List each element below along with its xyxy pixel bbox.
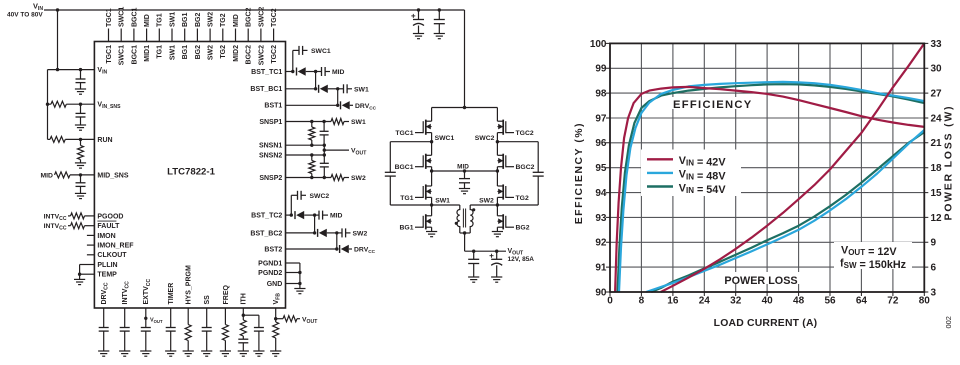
ground PLLIN/TEMP [74, 278, 85, 280]
curve power loss VIN=54V [651, 132, 924, 292]
resistor RUN divider bottom [80, 139, 82, 145]
inductor phasing dot L1A [455, 222, 458, 225]
wire sense mid tie [323, 145, 325, 155]
pin SW2 top stub [209, 29, 211, 42]
capacitor boost SWC1 [298, 46, 300, 55]
capacitor to ground [141, 327, 151, 329]
wire BST_TC2 to BST_BC2 tie [314, 215, 316, 233]
wire bottom pin [187, 308, 189, 325]
capacitor input bulk (polarized) [417, 8, 420, 11]
wire BST1 pin [286, 104, 338, 106]
capacitor CVIN bypass [80, 70, 82, 79]
svg-text:SW1: SW1 [169, 45, 176, 60]
legend line VIN=54V [647, 185, 673, 187]
svg-text:002: 002 [944, 316, 953, 328]
wire SWC2 boost branch [290, 195, 292, 215]
svg-text:BST_BC2: BST_BC2 [250, 230, 282, 237]
node MID left [430, 169, 433, 172]
svg-text:0: 0 [607, 296, 613, 307]
wire VFB pin [275, 308, 277, 322]
svg-text:MID_SNS: MID_SNS [97, 172, 128, 179]
svg-text:HYS_PRGM: HYS_PRGM [186, 265, 193, 304]
node SW1 [430, 203, 433, 206]
svg-text:32: 32 [730, 296, 742, 307]
ground MID cap [459, 188, 470, 190]
svg-text:VIN = 42V: VIN = 42V [679, 155, 727, 169]
svg-text:PGOOD: PGOOD [97, 213, 123, 220]
wire bottom pin [170, 308, 172, 328]
pin SWC2 top stub [260, 29, 262, 42]
svg-text:IMON: IMON [97, 233, 115, 240]
svg-text:MID: MID [332, 69, 345, 76]
pin TGC2 top stub [273, 29, 275, 42]
svg-text:TGC1: TGC1 [106, 8, 113, 27]
transistor TG1 [431, 171, 433, 186]
pin TG2 top stub [222, 29, 224, 42]
curve efficiency VIN=54V [618, 84, 925, 292]
transistor BGC1 [431, 142, 433, 156]
svg-text:POWER LOSS: POWER LOSS [724, 275, 797, 287]
svg-text:16: 16 [667, 296, 679, 307]
capacitor flying CFLY1 [390, 141, 431, 143]
wire to VOUT node [464, 233, 466, 251]
pin BG2 top stub [196, 29, 198, 42]
svg-text:98: 98 [595, 89, 607, 100]
resistor MID_SNS filter [55, 172, 71, 178]
pin stub IMON [87, 234, 95, 236]
svg-text:SW2: SW2 [353, 231, 368, 238]
wire BST_BC2 to BST2 tie [336, 233, 338, 249]
wire VIN rail [44, 9, 465, 11]
svg-text:MID2: MID2 [233, 45, 240, 62]
svg-text:SWC2: SWC2 [475, 135, 495, 142]
wire BST_BC1 pin [286, 88, 316, 90]
svg-text:24: 24 [699, 296, 711, 307]
wire bottom pin [224, 308, 226, 325]
svg-text:PLLIN: PLLIN [97, 262, 117, 269]
svg-text:LOAD CURRENT (A): LOAD CURRENT (A) [714, 318, 818, 329]
diode BST_TC1 [296, 68, 298, 76]
capacitor flying CFLY2 [497, 141, 538, 143]
chart annotation operating conditions [834, 242, 912, 269]
svg-text:93: 93 [595, 213, 607, 224]
svg-text:SW1: SW1 [354, 86, 369, 93]
svg-text:SWC1: SWC1 [311, 48, 331, 55]
svg-text:BG1: BG1 [182, 45, 189, 60]
ground output bulk cap [491, 276, 502, 278]
pin BG1 top stub [184, 29, 186, 42]
svg-text:BGC2: BGC2 [246, 45, 253, 65]
node SWC2 [496, 140, 499, 143]
svg-text:TIMER: TIMER [168, 283, 175, 305]
capacitor output bulk (polarized) [496, 251, 498, 259]
wire SNSN2 pin [286, 154, 325, 156]
ground [183, 350, 194, 352]
svg-text:48: 48 [793, 296, 805, 307]
chart legend [641, 150, 741, 197]
svg-text:CLKOUT: CLKOUT [97, 252, 127, 259]
wire SNSN1 pin [286, 144, 325, 146]
svg-text:TG2: TG2 [220, 45, 227, 59]
svg-text:6: 6 [931, 263, 937, 274]
svg-text:VIN = 48V: VIN = 48V [679, 169, 727, 183]
diode BST1 [340, 101, 342, 109]
wire PGND tie vertical [299, 263, 301, 289]
capacitor BST_TC2 to MID [315, 214, 319, 216]
svg-text:12V, 85A: 12V, 85A [508, 256, 535, 263]
inductor phasing dot L1B [472, 208, 475, 211]
svg-text:SW2: SW2 [208, 45, 215, 60]
capacitor sense RC phase2 [323, 155, 325, 163]
ground [98, 350, 109, 352]
transistor TG2 [496, 171, 498, 186]
chart annotation POWER LOSS [722, 272, 800, 284]
capacitor output ceramic [473, 251, 475, 259]
ground MID_SNS cap [75, 192, 86, 194]
svg-text:TG1: TG1 [157, 13, 164, 27]
ground [165, 350, 176, 352]
wire BST_TC2 pin [286, 214, 292, 216]
svg-text:92: 92 [595, 238, 607, 249]
diode BST2 [339, 245, 341, 253]
ground input bulk cap [413, 33, 424, 35]
wire BST_BC1 to BST1 tie [337, 89, 339, 106]
svg-text:BGC2: BGC2 [516, 164, 535, 171]
svg-text:SNSP1: SNSP1 [259, 119, 282, 126]
svg-text:POWER LOSS (W): POWER LOSS (W) [943, 105, 954, 221]
wire bottom pin [124, 308, 126, 328]
pin SW1 top stub [171, 29, 173, 42]
capacitor ITH hf [254, 327, 264, 329]
op-amp U1 LTC7822-1 IC body [94, 42, 285, 309]
capacitor BST_TC1 to MID [316, 71, 322, 73]
ground ITH hf cap [253, 350, 264, 352]
wire TEMP pin [80, 273, 95, 275]
svg-text:MID: MID [41, 172, 54, 179]
pin BGC1 top stub [133, 29, 135, 42]
svg-text:VOUT: VOUT [150, 317, 163, 324]
svg-text:27: 27 [931, 89, 943, 100]
resistor ITH comp [240, 320, 246, 336]
svg-text:SNSN2: SNSN2 [259, 152, 282, 159]
ground [140, 350, 151, 352]
wire BST_TC1 to BST_BC1 tie [315, 72, 317, 89]
pin MID1 top stub [146, 29, 148, 42]
svg-text:BST_BC1: BST_BC1 [250, 86, 282, 93]
resistor VIN_SNS filter [48, 103, 51, 105]
svg-text:SW2: SW2 [351, 175, 366, 182]
svg-text:91: 91 [595, 263, 607, 274]
capacitor boost SWC2 [297, 191, 299, 200]
diode BST_BC2 [317, 229, 319, 237]
pin stub IMON_REF [87, 244, 95, 246]
wire BST_BC2 pin [286, 232, 315, 234]
wire inductor common bottom [460, 232, 470, 234]
capacitor to ground [166, 327, 176, 329]
svg-text:GND: GND [267, 281, 283, 288]
svg-text:21: 21 [931, 138, 943, 149]
svg-text:EFFICIENCY (%): EFFICIENCY (%) [574, 122, 585, 224]
wire bottom pin [206, 308, 208, 328]
pin stub CLKOUT [87, 254, 95, 256]
svg-text:TG2: TG2 [220, 13, 227, 27]
ground [201, 350, 212, 352]
svg-text:RUN: RUN [97, 137, 112, 144]
svg-text:30: 30 [931, 64, 943, 75]
svg-text:MID1: MID1 [144, 45, 151, 62]
svg-text:BG2: BG2 [195, 45, 202, 60]
resistor to ground [185, 325, 191, 341]
transistor BG2 [496, 205, 498, 216]
svg-text:56: 56 [824, 296, 836, 307]
svg-text:SWC1: SWC1 [435, 135, 455, 142]
resistor SNSP1 sense [331, 119, 344, 125]
ground VFB divider [270, 350, 281, 352]
svg-text:BG1: BG1 [400, 225, 414, 232]
ground BG2 source [492, 231, 503, 233]
svg-text:3: 3 [931, 287, 937, 298]
node SW2 [496, 203, 499, 206]
svg-text:80: 80 [919, 296, 931, 307]
svg-text:BG2: BG2 [516, 225, 530, 232]
chart plot border [610, 43, 924, 292]
wire ITH cap branch [243, 314, 259, 316]
resistor sense RC phase1 [311, 122, 313, 128]
resistor SNSP2 sense [331, 175, 344, 181]
svg-text:BG2: BG2 [195, 13, 202, 28]
svg-text:SW1: SW1 [351, 119, 366, 126]
capacitor MID to ground [464, 171, 466, 179]
svg-text:SWC1: SWC1 [119, 7, 126, 27]
svg-text:SW1: SW1 [435, 197, 450, 204]
inductor L1B winding (SW2) [470, 204, 497, 206]
svg-text:BST_TC1: BST_TC1 [251, 69, 282, 76]
svg-text:BST2: BST2 [264, 246, 282, 253]
ground output ceramic cap [468, 276, 479, 278]
capacitor to ground [99, 327, 109, 329]
ground input ceramic cap [434, 33, 445, 35]
curve efficiency VIN=42V [615, 87, 924, 292]
transistor BGC2 [496, 142, 498, 156]
pin TGC1 top stub [108, 29, 110, 42]
svg-text:TG2: TG2 [516, 195, 529, 202]
svg-text:40: 40 [762, 296, 774, 307]
svg-text:BGC1: BGC1 [131, 45, 138, 65]
svg-text:SNSP2: SNSP2 [259, 175, 282, 182]
svg-text:IMON_REF: IMON_REF [97, 243, 134, 250]
ground [220, 350, 231, 352]
svg-text:BGC1: BGC1 [131, 7, 138, 27]
svg-text:SWC2: SWC2 [258, 45, 265, 65]
wire MID rail [432, 170, 498, 172]
wire PGND2 pin [286, 272, 300, 274]
svg-text:SS: SS [204, 295, 211, 305]
svg-text:VIN = 54V: VIN = 54V [679, 182, 727, 196]
svg-text:BG1: BG1 [182, 13, 189, 28]
svg-text:MID: MID [457, 163, 469, 170]
svg-text:MID: MID [233, 14, 240, 27]
wire VOUT sense tap [324, 149, 349, 151]
svg-text:24: 24 [931, 113, 943, 124]
svg-text:BST1: BST1 [264, 103, 282, 110]
pin BGC2 top stub [247, 29, 249, 42]
svg-text:95: 95 [595, 163, 607, 174]
svg-text:TGC1: TGC1 [106, 45, 113, 64]
transistor TGC1 [431, 108, 433, 122]
chart annotation EFFICIENCY [670, 97, 756, 109]
resistor sense RC phase2 [311, 155, 313, 161]
wire PLLIN to TEMP tie [80, 264, 95, 266]
resistor VFB bottom [273, 322, 279, 338]
svg-text:9: 9 [931, 238, 937, 249]
wire SWC1 boost branch [292, 50, 294, 71]
ground RUN divider [75, 162, 86, 164]
resistor VFB top feedback [276, 318, 283, 320]
svg-text:TGC2: TGC2 [516, 130, 534, 137]
capacitor BST_BC2 to SW2 [337, 232, 342, 234]
svg-text:TG1: TG1 [157, 45, 164, 59]
capacitor input ceramic [438, 8, 441, 11]
node EXTVCC VOUT tap [144, 317, 147, 320]
capacitor BST_BC1 to SW1 [338, 88, 344, 90]
chart axis ticks [606, 43, 928, 296]
wire bridge top rail [432, 107, 498, 109]
ground ITH [238, 350, 249, 352]
svg-text:SWC2: SWC2 [258, 7, 265, 27]
svg-text:PGND1: PGND1 [258, 260, 282, 267]
ground PGND [294, 288, 305, 290]
svg-text:SW2: SW2 [479, 197, 494, 204]
chart gridlines [610, 43, 924, 292]
resistor PGOOD pull-up [68, 215, 71, 217]
svg-text:LTC7822-1: LTC7822-1 [167, 167, 215, 178]
wire PGND1 pin [286, 262, 300, 264]
ground VIN_SNS cap [75, 124, 86, 126]
svg-text:18: 18 [931, 163, 943, 174]
svg-text:MID: MID [144, 14, 151, 27]
wire ITH pin [242, 308, 244, 320]
pin SWC1 top stub [120, 29, 122, 42]
svg-text:TEMP: TEMP [97, 272, 117, 279]
svg-text:BGC2: BGC2 [246, 7, 253, 27]
svg-text:FAULT: FAULT [97, 223, 120, 230]
wire bottom pin [145, 308, 147, 328]
svg-text:SW2: SW2 [208, 12, 215, 27]
diode BST_BC1 [318, 85, 320, 93]
inductor L1A winding (SW1) [432, 204, 460, 206]
svg-text:94: 94 [595, 188, 607, 199]
wire bottom pin [103, 308, 105, 328]
wire BST2 pin [286, 248, 337, 250]
wire BST_TC1 pin [286, 71, 293, 73]
svg-text:SWC1: SWC1 [119, 45, 126, 65]
svg-text:TGC2: TGC2 [271, 8, 278, 27]
capacitor ITH comp [242, 336, 244, 339]
legend line VIN=42V [647, 158, 673, 160]
capacitor MID_SNS filter [80, 175, 82, 183]
svg-text:64: 64 [856, 296, 868, 307]
node SWC1 [430, 140, 433, 143]
resistor FAULT pull-up [68, 225, 71, 227]
transistor TGC2 [496, 108, 498, 122]
wire SNSP2 pin [286, 177, 332, 179]
svg-text:40V TO 80V: 40V TO 80V [7, 12, 43, 19]
transistor BG1 [431, 205, 433, 216]
wire VIN drop to VIN pin [57, 10, 59, 70]
svg-text:100: 100 [590, 39, 607, 50]
capacitor to ground [202, 327, 212, 329]
wire VIN pin row [48, 69, 95, 71]
svg-text:33: 33 [931, 39, 943, 50]
svg-text:SW1: SW1 [169, 12, 176, 27]
svg-text:12: 12 [931, 213, 943, 224]
svg-text:TG1: TG1 [400, 195, 413, 202]
node MID right [496, 169, 499, 172]
ground BG1 source [426, 231, 437, 233]
pin MID2 top stub [235, 29, 237, 42]
pin TG1 top stub [158, 29, 160, 42]
curve power loss VIN=48V [646, 130, 924, 292]
svg-text:99: 99 [595, 64, 607, 75]
svg-text:15: 15 [931, 188, 943, 199]
svg-text:72: 72 [887, 296, 899, 307]
svg-text:8: 8 [639, 296, 645, 307]
svg-text:TGC2: TGC2 [271, 45, 278, 64]
svg-text:97: 97 [595, 113, 607, 124]
svg-text:ITH: ITH [241, 293, 248, 304]
capacitor to ground [120, 327, 130, 329]
svg-text:TGC1: TGC1 [395, 130, 413, 137]
inductor core [462, 209, 464, 228]
capacitor VIN_SNS filter [80, 104, 82, 113]
legend line VIN=48V [647, 172, 673, 174]
resistor RUN divider top [48, 138, 51, 140]
curve efficiency VIN=48V [619, 82, 924, 292]
svg-text:EFFICIENCY: EFFICIENCY [673, 99, 753, 111]
svg-text:90: 90 [595, 287, 607, 298]
node VIN rail junction [56, 8, 59, 11]
wire SNSP1 pin [286, 121, 332, 123]
svg-text:96: 96 [595, 138, 607, 149]
svg-text:MID: MID [330, 213, 343, 220]
resistor to ground [222, 325, 228, 341]
svg-text:SWC2: SWC2 [310, 193, 330, 200]
wire VIN to bridge [464, 10, 466, 108]
ground CVIN [75, 88, 86, 90]
curve power loss VIN=42V [661, 43, 925, 292]
svg-text:SNSN1: SNSN1 [259, 143, 282, 150]
wire left sense bus [47, 70, 49, 140]
capacitor sense RC phase1 [323, 122, 325, 132]
diode BST_TC2 [294, 211, 296, 219]
svg-text:PGND2: PGND2 [258, 270, 282, 277]
svg-text:BGC1: BGC1 [395, 164, 414, 171]
svg-text:FREQ: FREQ [223, 285, 230, 305]
svg-text:BST_TC2: BST_TC2 [251, 213, 282, 220]
ground [119, 350, 130, 352]
wire GND pin [286, 283, 300, 285]
